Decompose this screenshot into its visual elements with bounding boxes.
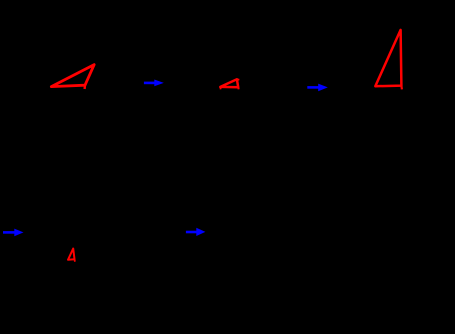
arrow 1 (blue, between triangle 1 and triangle 2) [144,80,164,87]
arrow 3 (blue, bottom-left edge) [3,229,24,237]
triangle 4 (tiny right triangle, bottom-left) [68,249,75,262]
triangle 2 (small obtuse, top-middle) [220,79,239,89]
arrow 2 (blue, between triangle 2 and triangle 3) [307,84,328,92]
arrow 4 (blue, bottom-middle) [186,228,206,236]
triangle 3 (tall right triangle, top-right) [375,30,402,90]
triangle 1 (large obtuse, top-left) [51,65,94,89]
